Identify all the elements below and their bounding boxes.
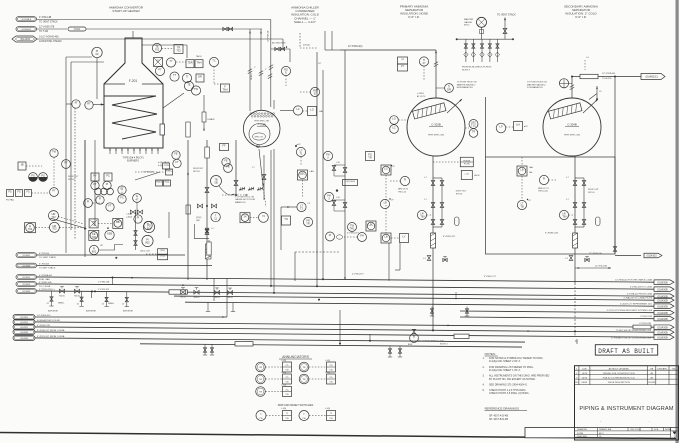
svg-text:DRAWING: DRAWING <box>577 428 587 431</box>
svg-text:SHELL: SHELL <box>251 72 253 80</box>
svg-text:4"-P341-41B TO C-301B: 4"-P341-41B TO C-301B <box>630 287 653 289</box>
svg-text:TO VENT STACK: TO VENT STACK <box>39 256 57 259</box>
svg-text:TO SEC M-B LET DOWN DRUM D-310: TO SEC M-B LET DOWN DRUM D-310 <box>616 330 652 332</box>
svg-text:(TO LP ABSORBER G-308): (TO LP ABSORBER G-308) <box>418 340 444 343</box>
svg-text:PIPE SPEC 37B: PIPE SPEC 37B <box>254 121 269 123</box>
svg-text:1.: 1. <box>483 357 485 360</box>
svg-text:NW.20: NW.20 <box>59 296 64 298</box>
svg-text:1": 1" <box>265 69 267 71</box>
svg-text:TSD: TSD <box>672 368 677 370</box>
svg-text:SPOOL: SPOOL <box>68 179 76 181</box>
svg-text:LAH: LAH <box>529 166 534 169</box>
svg-text:FE: FE <box>226 165 230 169</box>
svg-text:ANNUNCIATORS: ANNUNCIATORS <box>282 355 310 359</box>
svg-text:PY: PY <box>93 174 97 178</box>
svg-text:(0)1430B: (0)1430B <box>657 305 668 308</box>
svg-text:TO T-4B: TO T-4B <box>39 30 48 33</box>
svg-text:TR1: TR1 <box>350 226 355 230</box>
svg-text:TW: TW <box>194 87 199 91</box>
svg-text:1/2": 1/2" <box>318 63 322 65</box>
svg-text:PI: PI <box>137 216 140 220</box>
svg-text:MG.2: MG.2 <box>464 25 470 27</box>
svg-text:L-1(0): L-1(0) <box>281 385 286 387</box>
svg-text:NOTE 3: NOTE 3 <box>462 69 471 71</box>
svg-text:TB: TB <box>520 204 524 208</box>
svg-text:NW.20: NW.20 <box>214 297 219 299</box>
svg-text:(0)14008: (0)14008 <box>22 266 30 268</box>
svg-text:1/2: 1/2 <box>102 303 104 305</box>
svg-text:(0)14303: (0)14303 <box>646 255 657 258</box>
svg-text:NWELL: NWELL <box>58 303 65 305</box>
svg-text:PIPING & INSTRUMENT DIAGRAM: PIPING & INSTRUMENT DIAGRAM <box>579 406 673 412</box>
svg-text:REFERENCE DRAWINGS: REFERENCE DRAWINGS <box>485 406 519 410</box>
svg-text:AS BUILT UPDATED: AS BUILT UPDATED <box>609 367 630 370</box>
svg-text:(0)1430B: (0)1430B <box>657 312 668 315</box>
svg-text:(0)1430B: (0)1430B <box>657 288 668 291</box>
svg-text:2"-P380-10B: 2"-P380-10B <box>98 282 110 284</box>
svg-text:TW: TW <box>259 392 262 394</box>
svg-text:DRAFT AS BUILT: DRAFT AS BUILT <box>598 348 654 355</box>
svg-text:6'-0" I.D.: 6'-0" I.D. <box>408 15 420 19</box>
svg-text:8"-P381-417: 8"-P381-417 <box>443 236 456 238</box>
svg-text:FT: FT <box>108 204 112 208</box>
svg-text:6'-0" I.D.: 6'-0" I.D. <box>575 15 587 19</box>
svg-text:NW.20: NW.20 <box>74 296 79 298</box>
svg-text:C-303B: C-303B <box>431 123 441 127</box>
svg-text:4"-P314-4B: 4"-P314-4B <box>39 16 52 19</box>
svg-text:TO POINT HOLE ON: TO POINT HOLE ON <box>457 82 477 84</box>
svg-text:TDR: TDR <box>187 60 192 64</box>
svg-text:GAUGE: GAUGE <box>464 21 472 24</box>
svg-text:TR: TR <box>368 155 372 159</box>
svg-text:TW: TW <box>302 367 305 369</box>
svg-text:(0)14302: (0)14302 <box>20 38 31 41</box>
svg-text:T30: T30 <box>285 418 288 420</box>
svg-text:DATE: DATE <box>582 381 588 384</box>
svg-text:(0)14002: (0)14002 <box>22 255 30 257</box>
svg-text:BFFC OUT: BFFC OUT <box>255 137 263 139</box>
svg-text:T2: T2 <box>330 413 332 415</box>
svg-text:L-1(0): L-1(0) <box>281 408 286 410</box>
svg-text:(0)1430B: (0)1430B <box>657 299 668 302</box>
svg-text:TT: TT <box>173 73 177 77</box>
svg-text:SPOOL: SPOOL <box>193 171 201 173</box>
svg-text:T30: T30 <box>285 394 288 396</box>
svg-text:LT: LT <box>384 201 387 205</box>
svg-text:LBC: LBC <box>368 223 373 227</box>
svg-text:(0)14338: (0)14338 <box>20 332 28 334</box>
svg-text:DRAIN: DRAIN <box>208 118 215 121</box>
svg-text:TACK: TACK <box>196 55 202 58</box>
svg-text:2.: 2. <box>483 366 485 369</box>
svg-text:12"-P314-3B: 12"-P314-3B <box>595 266 607 268</box>
svg-text:(0)1430B: (0)1430B <box>657 331 668 334</box>
svg-text:PI: PI <box>106 182 109 186</box>
svg-text:5.: 5. <box>483 389 485 392</box>
svg-text:P&B ID G-D REDESIGN NO 141: P&B ID G-D REDESIGN NO 141 <box>603 377 636 379</box>
svg-text:PC: PC <box>106 174 110 178</box>
svg-text:702: 702 <box>92 235 97 239</box>
svg-text:FC: FC <box>120 196 124 200</box>
svg-text:DR: DR <box>447 87 451 91</box>
svg-text:LBC: LBC <box>300 172 305 176</box>
svg-text:RWC: RWC <box>166 169 172 173</box>
svg-text:CHECK POINT 4,5 DWG. (0)74303.: CHECK POINT 4,5 DWG. (0)74303. <box>489 392 529 395</box>
svg-text:SEE DRAWING 371-2904-4004-G.: SEE DRAWING 371-2904-4004-G. <box>489 383 528 386</box>
svg-text:1/2: 1/2 <box>122 304 124 306</box>
svg-text:E: E <box>314 91 316 95</box>
svg-text:TW: TW <box>52 150 57 154</box>
svg-text:TO VENT STACK: TO VENT STACK <box>39 21 58 24</box>
svg-text:(0)14318: (0)14318 <box>20 322 28 324</box>
svg-text:START-UP HEATER: START-UP HEATER <box>112 9 140 13</box>
svg-text:(2)9(2): (2)9(2) <box>196 217 202 219</box>
svg-text:NW.20: NW.20 <box>227 297 232 299</box>
svg-text:L-7: L-7 <box>566 199 569 201</box>
svg-text:JB: JB <box>20 163 23 167</box>
svg-text:12"-P328-4B: 12"-P328-4B <box>268 30 270 42</box>
svg-text:1": 1" <box>254 67 256 69</box>
svg-text:PURGE: PURGE <box>463 161 471 163</box>
svg-text:MASTER GAUGE-2: MASTER GAUGE-2 <box>457 83 476 86</box>
svg-text:R22: R22 <box>165 180 170 184</box>
svg-text:DR: DR <box>198 75 202 79</box>
svg-text:DRN APD: DRN APD <box>658 367 668 370</box>
svg-text:4.: 4. <box>483 383 485 386</box>
svg-text:TO PRIMARY R4B LET DOWN DRUM D: TO PRIMARY R4B LET DOWN DRUM D-306 <box>611 336 652 339</box>
svg-text:BB: BB <box>116 220 120 224</box>
svg-text:LIA: LIA <box>516 123 520 127</box>
svg-text:A3B: A3B <box>107 232 112 236</box>
svg-text:DROP OUT: DROP OUT <box>588 189 599 191</box>
svg-text:E: E <box>285 70 287 74</box>
svg-text:1-1(2) LACH: 1-1(2) LACH <box>345 180 356 183</box>
svg-text:SP. 4007-B-D-4B: SP. 4007-B-D-4B <box>489 418 508 421</box>
svg-text:4-(0)4 LTRS: 4-(0)4 LTRS <box>158 165 170 167</box>
svg-text:TO POINT HOLE ON: TO POINT HOLE ON <box>527 82 547 84</box>
svg-text:1/2: 1/2 <box>599 91 602 93</box>
svg-text:L-4(D2): L-4(D2) <box>126 217 132 219</box>
svg-text:FS: FS <box>8 190 12 194</box>
svg-text:TRK (2-14): TRK (2-14) <box>538 191 548 193</box>
svg-text:- .: - . <box>600 420 602 423</box>
svg-text:MASTER: MASTER <box>464 18 474 21</box>
svg-text:TR: TR <box>306 221 310 225</box>
svg-text:TO A-378: TO A-378 <box>602 77 612 80</box>
svg-text:T30: T30 <box>285 381 288 383</box>
svg-text:12"-P328-4(0): 12"-P328-4(0) <box>348 46 363 48</box>
svg-text:FE: FE <box>174 152 178 156</box>
svg-text:1/2: 1/2 <box>47 303 49 305</box>
svg-text:T2: T2 <box>286 413 288 415</box>
svg-text:DROPOUT: DROPOUT <box>68 176 79 178</box>
svg-text:L-1(0): L-1(0) <box>325 360 330 362</box>
svg-text:NOTES:: NOTES: <box>485 352 496 356</box>
svg-text:TW: TW <box>302 379 305 381</box>
svg-text:702: 702 <box>176 48 181 52</box>
svg-text:L-1(0): L-1(0) <box>325 372 330 374</box>
svg-text:FI: FI <box>99 197 102 201</box>
svg-text:SP. 4007-A-D-4B: SP. 4007-A-D-4B <box>489 414 508 417</box>
svg-text:RT: RT <box>87 102 91 106</box>
svg-text:LB: LB <box>520 168 523 172</box>
svg-text:FLOW: FLOW <box>464 163 470 165</box>
svg-text:D-2(4)2-00L SHEET 2 OF 3.: D-2(4)2-00L SHEET 2 OF 3. <box>489 360 521 363</box>
svg-text:(0)1416B-E: (0)1416B-E <box>21 19 31 21</box>
svg-text:LAH: LAH <box>310 170 315 173</box>
svg-text:PT: PT <box>93 182 97 186</box>
svg-text:FI: FI <box>543 177 546 181</box>
svg-text:3-1/2"-AOV45-400: 3-1/2"-AOV45-400 <box>39 36 59 39</box>
svg-text:PI: PI <box>87 200 90 204</box>
svg-text:COLD: COLD <box>74 29 81 31</box>
svg-text:B: B <box>413 335 415 339</box>
svg-text:BSW: BSW <box>408 344 413 346</box>
svg-text:7"-P328-4B: 7"-P328-4B <box>143 172 154 174</box>
svg-text:NOTE 4: NOTE 4 <box>440 343 448 345</box>
svg-text:ASPURGE: ASPURGE <box>48 310 58 313</box>
svg-text:4"-P307-C2B: 4"-P307-C2B <box>640 316 652 318</box>
svg-text:GAUGE HO.2 PG-3B: GAUGE HO.2 PG-3B <box>235 198 255 201</box>
svg-text:D-2(4)2-00L SHEET 1 OF 3.: D-2(4)2-00L SHEET 1 OF 3. <box>489 369 521 372</box>
svg-text:L-203/4: L-203/4 <box>417 93 425 95</box>
svg-text:4"-46227-C77 REFRIGERANT 44.D: 4"-46227-C77 REFRIGERANT 44.D <box>620 303 653 306</box>
svg-text:LG: LG <box>310 108 313 112</box>
svg-text:ASPURGE: ASPURGE <box>86 310 96 313</box>
svg-text:12"-P338-410: 12"-P338-410 <box>589 253 603 255</box>
svg-text:TW: TW <box>259 379 262 381</box>
svg-text:702: 702 <box>52 227 57 231</box>
svg-text:NW.20: NW.20 <box>194 297 199 299</box>
svg-text:6-(0)4 TACK: 6-(0)4 TACK <box>158 161 170 164</box>
svg-text:702: 702 <box>28 227 33 231</box>
svg-text:L-7: L-7 <box>566 177 569 179</box>
svg-text:4"-P384-077: 4"-P384-077 <box>347 233 359 235</box>
svg-text:FI: FI <box>404 178 407 182</box>
svg-text:NONE: NONE <box>665 429 672 431</box>
svg-text:MASTER GAUGE-2: MASTER GAUGE-2 <box>527 83 546 86</box>
svg-text:TO VENT STACK: TO VENT STACK <box>497 14 516 17</box>
svg-text:(0)14348: (0)14348 <box>20 338 28 340</box>
svg-text:ASPURGE: ASPURGE <box>123 310 133 313</box>
svg-text:4"-P303-C2B: 4"-P303-C2B <box>639 323 651 325</box>
svg-text:(0)1430B: (0)1430B <box>657 326 668 329</box>
svg-text:AT: AT <box>74 101 78 105</box>
svg-text:FIL FAIL: FIL FAIL <box>6 199 15 202</box>
svg-text:(0)14328: (0)14328 <box>20 327 28 329</box>
svg-text:10/76: 10/76 <box>582 373 588 375</box>
svg-text:FROM M-3B CHECK POINTS: FROM M-3B CHECK POINTS <box>462 67 492 69</box>
svg-text:4"-P33B-410 FROM D-304B: 4"-P33B-410 FROM D-304B <box>627 294 653 296</box>
svg-text:FUEL GAS: FUEL GAS <box>39 278 50 281</box>
svg-text:LB: LB <box>384 235 387 239</box>
svg-text:T30: T30 <box>329 418 332 420</box>
svg-text:BY PLANT NO. 300 EXCEPT AS NOT: BY PLANT NO. 300 EXCEPT AS NOTED. <box>489 378 536 381</box>
svg-text:DROP OUT: DROP OUT <box>456 191 467 193</box>
svg-text:LACH: LACH <box>474 174 480 177</box>
svg-text:12"-P328-601: 12"-P328-601 <box>602 73 616 75</box>
svg-text:●LP: ●LP <box>524 125 529 128</box>
svg-text:PT: PT <box>64 161 68 165</box>
svg-text:NEW LP-73: NEW LP-73 <box>538 188 549 190</box>
svg-text:801: 801 <box>147 226 152 230</box>
svg-text:LG: LG <box>392 117 395 121</box>
svg-text:P-3B MANIFOLD: P-3B MANIFOLD <box>527 86 543 89</box>
svg-text:PH: PH <box>360 234 364 238</box>
svg-text:PIPE SPEC 433: PIPE SPEC 433 <box>564 135 581 137</box>
svg-text:FF: FF <box>222 144 226 148</box>
svg-text:(0)14014: (0)14014 <box>22 277 30 279</box>
svg-text:CHECKED: CHECKED <box>577 436 588 438</box>
svg-text:802: 802 <box>92 249 97 253</box>
svg-text:L-1(0): L-1(0) <box>281 360 286 362</box>
svg-text:RW3: RW3 <box>156 180 162 184</box>
svg-text:JACKETING STEAM: JACKETING STEAM <box>39 40 61 43</box>
svg-text:(0)1482(C): (0)1482(C) <box>645 76 657 79</box>
svg-text:NWELL: NWELL <box>108 303 115 305</box>
svg-text:(0)1420H-2: (0)1420H-2 <box>21 29 31 31</box>
svg-text:NO: NO <box>575 382 579 384</box>
svg-text:PT: PT <box>158 68 162 72</box>
svg-text:TB: TB <box>562 214 566 218</box>
svg-text:L-2: L-2 <box>211 228 214 230</box>
svg-text:BLOWDOWN: BLOWDOWN <box>272 43 286 45</box>
svg-text:C-304B: C-304B <box>567 123 577 127</box>
svg-text:(0)1430B: (0)1430B <box>657 318 668 321</box>
svg-text:CHK 12/1/7: CHK 12/1/7 <box>630 429 642 431</box>
svg-text:TW: TW <box>259 367 262 369</box>
svg-text:TAH: TAH <box>223 87 228 91</box>
svg-text:F-201: F-201 <box>129 79 138 83</box>
svg-text:TE: TE <box>187 83 191 87</box>
svg-text:SHELL — 3-1/2": SHELL — 3-1/2" <box>294 20 316 24</box>
svg-text:TI: TI <box>186 75 189 79</box>
svg-text:RMP AND RESET SWITCHES: RMP AND RESET SWITCHES <box>278 403 314 407</box>
svg-text:L-7: L-7 <box>424 177 427 179</box>
svg-text:PT: PT <box>52 189 56 193</box>
svg-text:NEW LP-73: NEW LP-73 <box>398 189 408 191</box>
svg-text:SPOOL: SPOOL <box>588 192 596 194</box>
svg-text:G4C2 1-1B: G4C2 1-1B <box>140 251 150 253</box>
svg-text:LC: LC <box>392 126 395 130</box>
svg-text:3"-P338-C2B: 3"-P338-C2B <box>545 233 558 235</box>
svg-text:BURNERS: BURNERS <box>127 159 139 162</box>
svg-text:L-7: L-7 <box>424 199 427 201</box>
svg-text:TB: TB <box>420 214 424 218</box>
svg-text:FT: FT <box>175 160 179 164</box>
svg-text:4"-P(A)-370 TO C-303A, FV-374: 4"-P(A)-370 TO C-303A, FV-374 <box>623 297 653 300</box>
svg-text:DROPOUT: DROPOUT <box>193 168 204 170</box>
svg-text:PI: PI <box>329 233 332 237</box>
svg-text:L-16: L-16 <box>336 197 340 199</box>
svg-text:T1C: T1C <box>471 123 476 127</box>
svg-text:(0)14038: (0)14038 <box>22 291 30 293</box>
svg-text:LP: LP <box>499 125 502 129</box>
svg-text:4"-P344-C77: 4"-P344-C77 <box>484 276 497 278</box>
svg-text:TC: TC <box>212 59 216 63</box>
svg-text:M-3B MANIFOLD: M-3B MANIFOLD <box>457 86 474 89</box>
svg-text:TY: TY <box>169 59 173 63</box>
svg-text:(S10): (S10) <box>160 250 165 252</box>
svg-text:FS: FS <box>26 190 30 194</box>
svg-text:LG: LG <box>384 167 387 171</box>
svg-text:ISSUED FOR CONSTRUCTION: ISSUED FOR CONSTRUCTION <box>603 373 635 375</box>
svg-text:TR: TR <box>472 130 476 134</box>
svg-text:TO WHT STACK: TO WHT STACK <box>39 267 56 270</box>
svg-text:4"-P377-477 PURGE RECOVERY SY: 4"-P377-477 PURGE RECOVERY SYSTEM D-308 <box>607 310 653 312</box>
svg-text:10/74: 10/74 <box>582 377 588 379</box>
svg-text:SPOOL: SPOOL <box>456 193 464 195</box>
svg-text:FORM: FORM <box>577 433 583 435</box>
svg-text:12"-P33B-410 FOR THE CHAP A C: 12"-P33B-410 FOR THE CHAP A C-303B <box>615 279 653 282</box>
svg-text:802: 802 <box>145 240 150 244</box>
svg-text:4"-P344-377: 4"-P344-377 <box>352 274 364 276</box>
svg-text:12"-AG65-378: 12"-AG65-378 <box>39 26 55 29</box>
svg-text:. -: . - <box>648 420 650 423</box>
svg-text:DM0: DM0 <box>196 220 200 222</box>
svg-text:●LP: ●LP <box>297 143 302 146</box>
svg-text:LC: LC <box>296 107 299 111</box>
svg-text:5B: 5B <box>214 180 217 184</box>
svg-text:MANIFOLD: MANIFOLD <box>235 201 246 204</box>
svg-text:NW.20: NW.20 <box>180 297 185 299</box>
svg-text:SCA: SCA <box>654 428 659 431</box>
svg-text:(0)1430B: (0)1430B <box>657 281 668 284</box>
svg-text:(CPy2): (CPy2) <box>303 45 310 47</box>
svg-text:FS: FS <box>17 190 21 194</box>
svg-text:L-1(0): L-1(0) <box>281 372 286 374</box>
svg-text:4"-P319-370: 4"-P319-370 <box>98 289 110 291</box>
svg-text:TO POINT HO.1 ON: TO POINT HO.1 ON <box>235 197 254 199</box>
svg-text:(0)14028: (0)14028 <box>22 284 30 286</box>
svg-text:DRAWN JEB: DRAWN JEB <box>599 428 612 431</box>
svg-text:L-16: L-16 <box>336 162 340 164</box>
svg-text:LY: LY <box>403 235 406 239</box>
svg-text:AT LP-73: AT LP-73 <box>417 95 426 98</box>
svg-text:BCWR: BCWR <box>648 382 655 384</box>
svg-text:702: 702 <box>155 47 160 51</box>
svg-text:L-1(D2): L-1(D2) <box>126 214 132 216</box>
svg-text:(0)14308: (0)14308 <box>20 317 28 319</box>
svg-text:ISSUE DESCRIPTION: ISSUE DESCRIPTION <box>608 382 631 384</box>
svg-text:TO C-301A: TO C-301A <box>39 285 51 288</box>
svg-text:T30: T30 <box>329 381 332 383</box>
svg-text:TRK 2-14: TRK 2-14 <box>398 191 406 193</box>
svg-text:L-1(0): L-1(0) <box>325 408 330 410</box>
svg-text:3.: 3. <box>483 375 485 378</box>
svg-text:H: H <box>402 57 404 61</box>
svg-text:(T22): (T22) <box>160 256 165 258</box>
svg-text:TAH: TAH <box>197 60 202 64</box>
svg-text:1/2: 1/2 <box>77 303 79 305</box>
svg-text:(0)1430B: (0)1430B <box>657 336 668 339</box>
svg-text:FE: FE <box>224 159 228 163</box>
svg-text:PIPE SPEC 433: PIPE SPEC 433 <box>428 135 445 137</box>
svg-text:TN: TN <box>284 217 288 221</box>
